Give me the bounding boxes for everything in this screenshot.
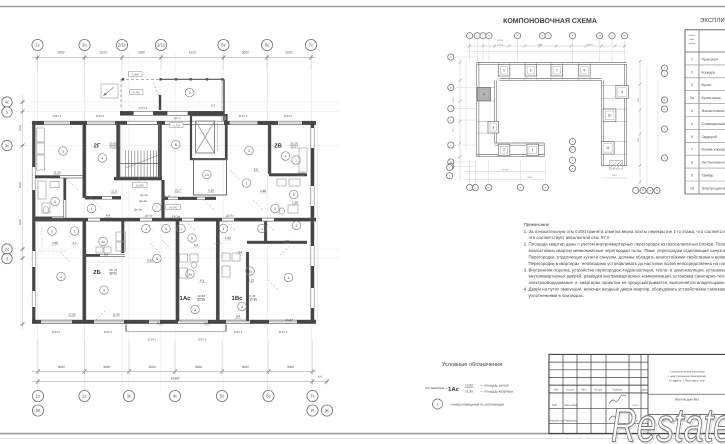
svg-text:ЭКСПЛИКАЦИЯ ПОМЕЩЕНИЙ: ЭКСПЛИКАЦИЯ ПОМЕЩЕНИЙ [700, 16, 725, 24]
door swings [60, 170, 290, 320]
svg-text:Дв-5а: Дв-5а [145, 214, 153, 218]
plumbing and kitchen fixtures [37, 128, 308, 278]
layout scheme group [447, 18, 668, 194]
room circle 3 [245, 146, 254, 155]
scheme bubble 3 [474, 33, 480, 39]
vestibule wall [162, 78, 225, 80]
axis bubble 3/1с [155, 39, 166, 50]
scheme divider [477, 121, 495, 123]
svg-text:36,75: 36,75 [110, 272, 118, 276]
partition walls [82, 124, 84, 198]
axis line 4 [13, 257, 340, 259]
svg-text:КОМПОНОВОЧНАЯ СХЕМА: КОМПОНОВОЧНАЯ СХЕМА [503, 18, 597, 25]
door swing [268, 280, 278, 290]
scheme bubble Ж [569, 146, 575, 152]
corridor wall [33, 217, 316, 219]
door swing [264, 221, 274, 231]
scheme bubble 4 [447, 173, 453, 179]
svg-text:9000: 9000 [452, 97, 455, 103]
svg-text:Жилая комната: Жилая комната [702, 109, 725, 113]
svg-text:Подпись: Подпись [613, 389, 624, 392]
svg-text:2/1с: 2/1с [118, 43, 127, 48]
axis line 3с [13, 145, 340, 147]
svg-text:3а: 3а [248, 269, 252, 273]
svg-text:щения: щения [689, 42, 696, 45]
svg-text:поме-: поме- [689, 38, 695, 41]
left dimension line [22, 95, 24, 330]
svg-text:6: 6 [691, 135, 693, 139]
scheme bubble 0 [545, 33, 551, 39]
explication row 9 [685, 180, 725, 182]
room circle 5 [188, 234, 197, 243]
svg-text:Кухня: Кухня [702, 83, 711, 87]
svg-text:1: 1 [691, 57, 693, 61]
room circle 1 [258, 224, 267, 233]
svg-text:3с: 3с [127, 394, 133, 399]
room circle 3а [99, 237, 108, 246]
svg-text:3000: 3000 [148, 365, 155, 369]
svg-text:7: 7 [156, 206, 158, 210]
scheme bubble 9 [569, 33, 575, 39]
svg-text:2ОП-1: 2ОП-1 [148, 338, 157, 342]
axis line 2/1с [121, 50, 123, 391]
svg-text:5с: 5с [221, 43, 227, 48]
svg-text:7с: 7с [310, 394, 316, 399]
room circle 1 [87, 204, 96, 213]
window [44, 122, 70, 124]
svg-text:5: 5 [503, 68, 505, 72]
axis bubble 1с [32, 39, 43, 50]
svg-text:3000: 3000 [242, 365, 249, 369]
axis line 3с [128, 50, 130, 391]
level mark -0.960 [129, 72, 143, 77]
svg-text:9: 9 [691, 174, 693, 178]
svg-text:3а: 3а [101, 240, 105, 244]
scheme divider [524, 63, 526, 81]
svg-text:7500: 7500 [452, 127, 455, 133]
axis bubble 1с [32, 390, 43, 401]
svg-text:5с: 5с [220, 394, 226, 399]
svg-text:17,46: 17,46 [250, 298, 258, 302]
window [226, 321, 250, 323]
svg-text:4с: 4с [5, 99, 9, 104]
svg-text:7: 7 [556, 68, 558, 72]
svg-text:3: 3 [62, 149, 64, 153]
svg-text:3а: 3а [188, 272, 192, 276]
svg-text:Дв-3м: Дв-3м [140, 193, 148, 197]
scheme block 3 [488, 122, 499, 134]
svg-text:2ОП-1: 2ОП-1 [284, 114, 293, 118]
svg-text:±0,000: ±0,000 [169, 206, 178, 209]
svg-text:8,4: 8,4 [236, 315, 241, 319]
scheme bubble С [661, 126, 667, 132]
apartment labels [93, 142, 298, 303]
explication row 7 [685, 154, 725, 156]
svg-text:Кухня-ниша: Кухня-ниша [702, 96, 721, 100]
svg-text:57380: 57380 [497, 39, 504, 42]
svg-text:-0,750: -0,750 [173, 125, 181, 128]
scheme block 10 [603, 109, 616, 122]
scheme bubble Б [569, 157, 575, 163]
svg-text:4: 4 [103, 288, 105, 292]
svg-text:1,55: 1,55 [225, 236, 231, 240]
svg-text:2: 2 [74, 229, 76, 233]
level mark -0.760 [130, 90, 144, 95]
door swing [225, 221, 236, 231]
scheme bubble 2 [472, 184, 478, 190]
svg-text:М: М [36, 408, 40, 413]
stamp row line [549, 423, 648, 425]
door swing [150, 243, 160, 253]
window [31, 251, 33, 267]
scheme bubble 6 [486, 33, 492, 39]
scheme bubble П [448, 54, 454, 60]
svg-text:М: М [450, 86, 452, 89]
wall right of elevator [225, 120, 228, 159]
svg-text:Дв-3м: Дв-3м [139, 199, 147, 203]
door swing [230, 170, 240, 180]
svg-text:1: 1 [180, 227, 182, 231]
room circle 4 [281, 152, 290, 161]
svg-text:Тамбур: Тамбур [702, 174, 714, 178]
svg-text:9000: 9000 [528, 176, 534, 179]
scheme bubble 8 [542, 184, 548, 190]
svg-text:ГАП: ГАП [552, 404, 557, 407]
axis bubble 7с [305, 39, 316, 50]
svg-text:7с: 7с [309, 43, 315, 48]
svg-text:-0,760: -0,760 [132, 92, 140, 95]
svg-text:15150: 15150 [497, 44, 504, 47]
legend (Условные обозначения) [425, 361, 514, 409]
svg-text:4: 4 [241, 305, 243, 309]
toilet [43, 207, 48, 214]
scheme divider [602, 97, 627, 99]
stamp row line [549, 361, 648, 363]
svg-text:3,98: 3,98 [260, 189, 266, 193]
svg-text:2,2: 2,2 [72, 241, 77, 245]
svg-text:6с: 6с [265, 43, 271, 48]
door swing [96, 310, 106, 320]
svg-text:И: И [311, 408, 314, 413]
svg-text:2с: 2с [82, 43, 88, 48]
svg-text:Перегородки в квартирах необх: Перегородки в квартирах необходимо устан… [524, 261, 725, 266]
fixture [289, 179, 300, 186]
signature squiggle 1 [609, 395, 626, 404]
scheme divider [477, 100, 495, 102]
svg-text:3: 3 [691, 83, 693, 87]
scheme bubble ТЗ [640, 187, 646, 193]
scheme bubble С [633, 187, 639, 193]
door swing [90, 197, 102, 209]
svg-text:14,37: 14,37 [285, 318, 293, 322]
fixture [37, 128, 45, 142]
scheme divider [602, 141, 627, 143]
svg-text:внутриквартирных дверей, разво: внутриквартирных дверей, разводка внутри… [524, 274, 725, 279]
svg-text:2ОП-4: 2ОП-4 [96, 114, 105, 118]
axis line 2с [84, 50, 86, 391]
scheme divider [602, 121, 627, 123]
room circle 4 [100, 286, 109, 295]
scheme block 8 [579, 65, 591, 77]
stamp row line [549, 407, 648, 409]
scheme bubble 9 [539, 33, 545, 39]
svg-text:4с: 4с [173, 394, 179, 399]
door swing [204, 200, 214, 210]
svg-text:Дв-1л: Дв-1л [163, 194, 171, 198]
svg-text:2: 2 [691, 70, 693, 74]
svg-text:6с: 6с [266, 394, 272, 399]
scheme divider [536, 63, 538, 81]
svg-text:1с: 1с [35, 43, 41, 48]
axis bubble 5с [218, 39, 229, 50]
axis bubble 6с [261, 39, 272, 50]
window [310, 128, 312, 148]
window [310, 246, 312, 266]
svg-text:11,9: 11,9 [111, 190, 117, 194]
svg-text:2,3: 2,3 [216, 240, 221, 244]
fixture [50, 182, 59, 188]
canopy dashed [121, 78, 162, 80]
svg-text:4: 4 [285, 154, 287, 158]
svg-text:2620: 2620 [100, 51, 107, 55]
room circle 2 [271, 204, 280, 213]
explication row 1 [685, 64, 725, 66]
scheme block 11 [602, 142, 615, 155]
svg-text:2ОП-1: 2ОП-1 [52, 330, 61, 334]
svg-text:Лист: Лист [581, 389, 587, 392]
svg-text:Restate: Restate [611, 400, 725, 444]
axis bubble И [307, 405, 318, 416]
svg-text:5: 5 [691, 122, 693, 126]
svg-text:3000: 3000 [195, 365, 202, 369]
fixture [42, 203, 50, 213]
axis bubble 5 [2, 107, 12, 117]
svg-text:18300: 18300 [171, 377, 180, 381]
fixture [232, 253, 240, 261]
svg-text:8: 8 [165, 227, 167, 231]
explication row 4 [685, 116, 725, 118]
svg-text:2Г: 2Г [94, 143, 101, 150]
scheme building outline [477, 62, 627, 64]
svg-text:9,32: 9,32 [157, 321, 163, 325]
room circle 9 [185, 88, 194, 97]
door swing [162, 240, 170, 248]
svg-text:9620: 9620 [18, 181, 22, 188]
window [278, 122, 302, 124]
svg-text:4: 4 [101, 156, 103, 160]
svg-text:10,80: 10,80 [465, 384, 473, 388]
svg-text:3: 3 [492, 125, 494, 129]
stamp column line [605, 354, 607, 433]
svg-text:3000: 3000 [242, 51, 249, 55]
explication row 10 [685, 193, 725, 195]
room circle 4 [284, 273, 293, 282]
scheme bubble 2 [447, 164, 453, 170]
scheme divider [602, 85, 627, 87]
area labels [52, 168, 306, 326]
fixture [116, 242, 126, 251]
room circle 1 [292, 156, 301, 165]
svg-text:1,95: 1,95 [292, 201, 298, 205]
axis bubble 4с [2, 97, 12, 107]
svg-text:8,4: 8,4 [106, 214, 111, 218]
svg-text:21480: 21480 [502, 169, 509, 172]
fixture [37, 143, 45, 154]
svg-text:что соответствует абсолютной о: что соответствует абсолютной отм. 97,0 [524, 235, 610, 240]
svg-text:Электрощитовая: Электрощитовая [702, 186, 725, 190]
svg-text:3000: 3000 [103, 365, 110, 369]
svg-text:1Вс: 1Вс [231, 295, 243, 302]
svg-text:10: 10 [690, 186, 694, 190]
floor plan group [2, 39, 340, 416]
scheme divider [578, 63, 580, 81]
window [310, 288, 312, 308]
room circle 5 [153, 254, 162, 263]
svg-text:4: 4 [288, 276, 290, 280]
svg-text:4: 4 [60, 275, 62, 279]
scheme bubble И [569, 138, 575, 144]
svg-text:3: 3 [248, 149, 250, 153]
stamp column line [640, 354, 642, 433]
svg-text:3. Внутренняя отделка, устройс: 3. Внутренняя отделка, устройство перего… [524, 267, 725, 272]
svg-text:9000: 9000 [637, 97, 640, 103]
explication row 6 [685, 141, 725, 143]
svg-text:2980: 2980 [138, 51, 145, 55]
window [41, 321, 72, 323]
toilet [191, 262, 196, 268]
axis bubble 3с [2, 140, 12, 150]
bottom dimension lines [32, 371, 316, 373]
scheme bubble 5 [480, 33, 486, 39]
svg-text:8,3: 8,3 [211, 104, 215, 108]
axis line 5 [13, 111, 340, 113]
window [178, 321, 208, 323]
room circle 5 [290, 190, 299, 199]
svg-text:Лестничная кл.: Лестничная кл. [702, 161, 725, 165]
svg-text:5: 5 [51, 229, 53, 233]
svg-text:3/1с: 3/1с [157, 43, 166, 48]
stamp main divider [647, 354, 649, 433]
toilet [279, 208, 284, 214]
scheme divider [562, 63, 564, 81]
stamp column line [562, 354, 564, 433]
svg-text:Дв-5а: Дв-5а [226, 214, 234, 218]
svg-text:-0,960: -0,960 [131, 74, 139, 77]
stamp row line [549, 369, 648, 371]
scheme block 9 [616, 86, 629, 99]
corridor upper walls [85, 195, 121, 197]
svg-text:2,5: 2,5 [285, 239, 290, 243]
fixture [190, 254, 198, 262]
fixture [116, 232, 126, 241]
outer wall bottom [32, 319, 316, 321]
svg-text:4,3: 4,3 [200, 279, 205, 283]
svg-text:2ОП-1: 2ОП-1 [279, 330, 288, 334]
explication row 8 [685, 167, 725, 169]
axis bubble Ж [321, 405, 332, 416]
axis bubble 2с [2, 244, 12, 254]
svg-text:4000: 4000 [18, 218, 22, 225]
svg-text:8: 8 [584, 68, 586, 72]
svg-text:Дв-7л: Дв-7л [174, 117, 181, 120]
svg-text:48,41: 48,41 [291, 146, 299, 150]
svg-text:Мотылева: Мотылева [565, 404, 578, 407]
svg-text:9000: 9000 [538, 44, 544, 47]
axis bubble 2с [79, 390, 90, 401]
room circle 4 [57, 272, 66, 281]
svg-text:8: 8 [691, 161, 693, 165]
walls group [32, 121, 318, 332]
svg-text:1: 1 [295, 158, 297, 162]
svg-text:5: 5 [296, 224, 298, 228]
door swing [143, 221, 153, 231]
fixture [96, 247, 103, 253]
svg-text:3с: 3с [5, 143, 9, 148]
svg-text:Примечание:: Примечание: [524, 222, 551, 227]
scheme bubble В [661, 65, 667, 71]
axis line 4с [13, 101, 340, 103]
svg-text:Кол.уч: Кол.уч [566, 389, 574, 392]
scheme bubble 5 [517, 184, 523, 190]
svg-text:5: 5 [191, 236, 193, 240]
fixture [37, 155, 45, 170]
svg-text:9150: 9150 [637, 137, 640, 143]
svg-text:±0,000: ±0,000 [136, 184, 145, 187]
scheme entrance hatch [610, 161, 623, 170]
legend circle [433, 399, 443, 409]
scheme bubble 1 [467, 33, 473, 39]
room circle 2 [70, 227, 79, 236]
entrance canopy note [101, 84, 118, 98]
svg-text:10: 10 [205, 173, 209, 177]
window [269, 321, 297, 323]
svg-text:2Б: 2Б [93, 269, 101, 276]
svg-text:влагостойких квартир межкомнат: влагостойких квартир межкомнатные перего… [524, 248, 725, 253]
scheme block 7 [551, 65, 563, 77]
svg-text:11: 11 [606, 146, 610, 150]
scheme divider [602, 108, 627, 110]
svg-text:9: 9 [189, 91, 191, 95]
scheme block 1 [527, 144, 539, 156]
scheme block 6 [525, 65, 537, 77]
axis bubble 5с [216, 390, 227, 401]
svg-text:3000: 3000 [57, 51, 64, 55]
scheme divider [509, 63, 511, 81]
svg-text:3,82: 3,82 [147, 259, 153, 263]
svg-text:Коридор: Коридор [702, 70, 716, 74]
fixture [277, 179, 286, 186]
svg-text:8: 8 [175, 143, 177, 147]
door swing [280, 246, 290, 255]
svg-text:1: 1 [246, 181, 248, 185]
room circle 4 [98, 154, 107, 163]
svg-text:3000: 3000 [287, 365, 294, 369]
scheme bubble Г [661, 70, 667, 76]
svg-text:Перегородки, отделяющие кухни: Перегородки, отделяющие кухни и санузлы,… [524, 254, 725, 259]
svg-text:1: 1 [532, 148, 534, 152]
explication row 5 [685, 128, 725, 130]
room circle 3а [186, 270, 195, 279]
explication table [685, 16, 725, 194]
outer wall left [31, 121, 33, 124]
svg-text:4. Двери на путях эвакуации, в: 4. Двери на путях эвакуации, включая вхо… [524, 287, 725, 292]
scheme bubble № [647, 187, 653, 193]
scheme bubble Г [448, 163, 454, 169]
svg-text:3,4: 3,4 [194, 243, 199, 247]
svg-text:2: 2 [274, 207, 276, 211]
stamp column line [590, 354, 592, 433]
fixture [38, 181, 46, 199]
